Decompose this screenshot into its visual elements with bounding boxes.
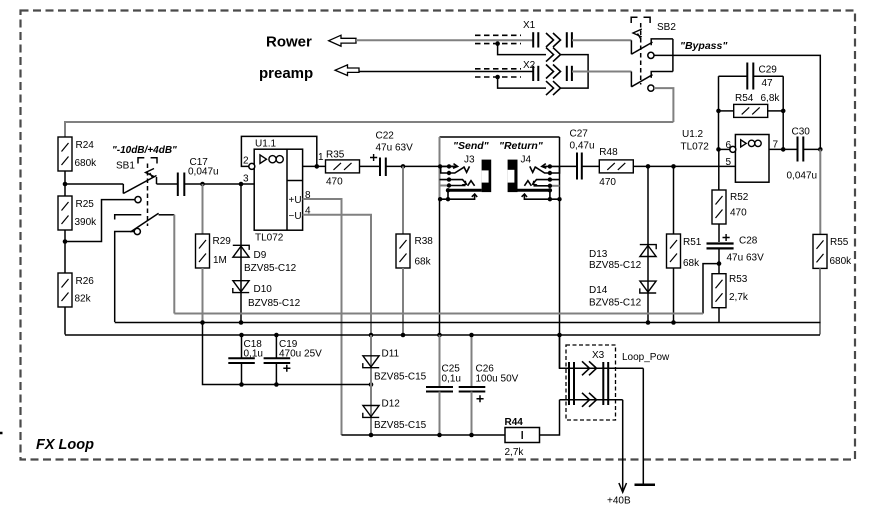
wire C28 to mid rail [703, 248, 719, 313]
wire R26 to bottom rail [64, 307, 66, 335]
jack J3 body bar [482, 160, 492, 193]
svg-text:D13: D13 [589, 249, 608, 260]
resistor R44 [505, 417, 540, 458]
J3 tip switch row [441, 166, 464, 173]
svg-text:470: 470 [599, 177, 616, 188]
svg-text:BZV85-C12: BZV85-C12 [589, 260, 642, 271]
svg-text:0,1u: 0,1u [244, 349, 263, 360]
svg-text:R26: R26 [76, 276, 95, 287]
X1 shield junction dot [495, 41, 500, 46]
svg-text:100u 50V: 100u 50V [476, 374, 519, 385]
resistor R48 [599, 147, 633, 188]
svg-text:R51: R51 [683, 237, 702, 248]
resistor R51 [667, 166, 702, 322]
X1 signal chevron [546, 33, 561, 47]
svg-text:47u 63V: 47u 63V [376, 143, 414, 154]
svg-text:R48: R48 [599, 147, 618, 158]
SB2 upper switch [631, 39, 673, 54]
svg-text:BZV85-C15: BZV85-C15 [374, 372, 427, 383]
capacitor C29 [719, 63, 784, 90]
SB1 bracket [138, 158, 144, 164]
svg-text:U1.2: U1.2 [682, 129, 704, 140]
resistor R25 [58, 196, 97, 230]
SB2 upper contact circle [648, 52, 654, 58]
rail 322 [115, 322, 821, 324]
op-amp U1.2 [735, 135, 769, 183]
J4 ring switch row [550, 185, 560, 187]
svg-text:SB1: SB1 [116, 161, 135, 172]
svg-text:2,7k: 2,7k [505, 447, 525, 458]
X2 shield junction dot [495, 75, 500, 80]
svg-text:R29: R29 [213, 236, 232, 247]
mid supply rail grey 313 [174, 313, 703, 315]
capacitor C18 [228, 335, 263, 385]
capacitor C25 [426, 335, 461, 435]
svg-text:+40B: +40B [607, 496, 631, 507]
wire to +40B [622, 400, 624, 491]
pin 2 inversion circle [249, 163, 255, 169]
capacitor C17 [178, 173, 185, 197]
svg-text:"Bypass": "Bypass" [680, 40, 728, 52]
svg-text:470: 470 [326, 177, 343, 188]
node R38 bottom on 335 rail [401, 333, 406, 338]
wire X1 to SB2 [572, 39, 631, 41]
X2 shield drop wire [498, 77, 546, 88]
svg-text:TL072: TL072 [255, 233, 284, 244]
node R51 bottom [671, 320, 676, 325]
pin 6 inversion circle [730, 146, 736, 152]
J3 ring switch row [440, 185, 450, 187]
wire to ground [642, 368, 644, 484]
svg-text:47: 47 [762, 78, 774, 89]
svg-text:0,047u: 0,047u [188, 167, 219, 178]
wire SB1 lower contact to 322 rail [115, 232, 135, 323]
node R25/R26 [63, 239, 68, 244]
svg-text:470u 25V: 470u 25V [279, 349, 322, 360]
ground symbol [635, 484, 656, 487]
svg-text:C30: C30 [792, 127, 811, 138]
svg-text:Rower: Rower [266, 34, 312, 51]
capacitor C27 [577, 153, 582, 180]
wire C22 to J3 [386, 165, 457, 167]
node output/feedback [315, 164, 320, 169]
svg-text:"Send": "Send" [453, 140, 490, 152]
node D11/D12 mid [369, 382, 374, 387]
svg-text:D9: D9 [254, 250, 267, 261]
node output [781, 147, 786, 152]
jack enclosure box [440, 137, 560, 368]
X1 connector bars [533, 32, 572, 47]
svg-text:470: 470 [730, 208, 747, 219]
pin 1 output wire [303, 165, 326, 167]
node D13 top [646, 164, 651, 169]
node X3 upper on 335 [557, 333, 562, 338]
C29/R54 left branch [718, 76, 720, 149]
node R24/R25 [63, 182, 68, 187]
SB2 lower contact circle [648, 85, 654, 91]
node C17/R29 [200, 182, 205, 187]
J4 tip contact row [530, 164, 560, 173]
svg-text:390k: 390k [75, 217, 98, 228]
node C30/bypass/R55 [818, 147, 823, 152]
pin 8 wire to +supply [303, 199, 342, 435]
X2 connector bars [533, 66, 572, 81]
top feedback bus [65, 122, 673, 137]
op-amp U1.1 [254, 149, 302, 230]
X3 lower pin wire [560, 399, 623, 401]
J4 sleeve row [522, 194, 560, 199]
svg-text:C29: C29 [759, 65, 778, 76]
wire C27 to R48 [582, 165, 600, 167]
svg-text:D10: D10 [254, 284, 273, 295]
svg-text:6,8k: 6,8k [761, 93, 781, 104]
J3 tip contact row [440, 164, 470, 173]
svg-text:J4: J4 [521, 155, 532, 166]
svg-text:preamp: preamp [259, 65, 313, 82]
svg-text:680k: 680k [75, 158, 98, 169]
X1 shield chevron [546, 48, 561, 62]
svg-text:R53: R53 [729, 274, 748, 285]
SB1 upper switch [123, 176, 156, 194]
resistor R54 [719, 93, 784, 117]
resistor R35 [326, 150, 360, 188]
svg-text:TL072: TL072 [681, 142, 710, 153]
wire R24-R25 [64, 171, 66, 196]
SB2 actuator arrow [633, 29, 642, 39]
resistor R24 [58, 137, 97, 171]
pin 4 wire to -supply [303, 215, 371, 335]
wire SB1 upper contact to node R25/R26 [67, 200, 135, 242]
zener D10 [233, 281, 301, 309]
svg-text:47u 63V: 47u 63V [727, 253, 765, 264]
X3 lower chevron [582, 393, 597, 407]
SB2 lower switch [631, 39, 673, 87]
svg-text:SB2: SB2 [657, 22, 676, 33]
svg-text:X3: X3 [592, 350, 605, 361]
svg-text:R54: R54 [735, 93, 754, 104]
zener D14 [589, 281, 656, 308]
svg-text:R25: R25 [76, 199, 95, 210]
shield loop wire [561, 55, 588, 89]
wire R35 to C22 [360, 165, 381, 167]
wire R48 to U1.2 pin5 [633, 165, 735, 167]
rail 435 positive supply [342, 434, 506, 436]
pin6 wire [719, 148, 730, 150]
connector X3 dashed box [566, 345, 616, 420]
svg-text:BZV85-C12: BZV85-C12 [589, 298, 642, 309]
svg-text:U1.1: U1.1 [255, 139, 277, 150]
X3 bars [569, 362, 608, 405]
node D12 bottom [369, 433, 374, 438]
svg-text:5: 5 [726, 157, 732, 168]
+40B arrowhead [619, 483, 627, 492]
C29/R54 right branch [782, 76, 784, 149]
wire SB1 to C17 [157, 183, 178, 185]
J4 tip switch row [536, 166, 560, 173]
node pin4 on 335 [369, 333, 374, 338]
SB2 dashed link [640, 23, 642, 85]
svg-text:−U: −U [289, 211, 302, 222]
U1.1 amp symbol [260, 155, 283, 164]
node R29 bottom on 322 rail [200, 320, 205, 325]
SB1 upper contact circle [135, 197, 141, 203]
capacitor C28 [707, 234, 765, 264]
svg-text:D12: D12 [382, 399, 401, 410]
J3 ring contact row [440, 180, 475, 186]
svg-text:1M: 1M [213, 255, 227, 266]
node C22/R38 [401, 164, 406, 169]
svg-text:BZV85-C15: BZV85-C15 [374, 420, 427, 431]
wire X2 to SB2 [572, 71, 631, 73]
svg-text:2: 2 [243, 156, 249, 167]
node D10 bottom on 322 rail [239, 320, 244, 325]
wire SB2 lower to top bus [654, 88, 673, 122]
resistor R53 [712, 264, 749, 323]
J3 sleeve thick lead [448, 189, 482, 192]
node D14 bottom [646, 320, 651, 325]
svg-text:Loop_Pow: Loop_Pow [622, 352, 670, 363]
svg-text:C22: C22 [376, 131, 395, 142]
wire R25-R26 [64, 230, 66, 273]
wire Rower arrow to X1 [356, 39, 533, 41]
pin 7 output wire [769, 148, 798, 150]
arrow to preamp [335, 65, 359, 76]
wire R44 to X3 lower [540, 400, 560, 435]
svg-text:D14: D14 [589, 285, 608, 296]
capacitor C26 [459, 335, 519, 435]
resistor R29 [196, 184, 232, 323]
svg-text:2,7k: 2,7k [729, 292, 749, 303]
svg-text:0,047u: 0,047u [787, 171, 818, 182]
rail 384 C18/C19 bottom [203, 323, 372, 385]
zener D12 [363, 399, 427, 432]
svg-text:68k: 68k [683, 258, 700, 269]
zener D9 [233, 184, 297, 323]
rail 335 [65, 334, 820, 336]
svg-text:+U: +U [289, 195, 302, 206]
svg-text:BZV85-C12: BZV85-C12 [244, 263, 297, 274]
capacitor C22 [380, 158, 386, 177]
svg-text:C27: C27 [570, 129, 589, 140]
arrow to Rower [329, 35, 356, 46]
svg-text:680k: 680k [830, 256, 853, 267]
svg-text:1: 1 [318, 152, 324, 163]
node jack edge on 335 [437, 333, 442, 338]
resistor R52 [712, 149, 749, 242]
resistor R55 [813, 149, 852, 334]
svg-text:FX Loop: FX Loop [36, 437, 94, 453]
node pin6 [716, 147, 721, 152]
svg-text:R55: R55 [830, 237, 849, 248]
svg-text:R52: R52 [730, 192, 749, 203]
J3 sleeve row [440, 194, 478, 199]
svg-text:0,47u: 0,47u [570, 141, 595, 152]
svg-text:68k: 68k [415, 257, 432, 268]
svg-text:X1: X1 [523, 20, 536, 31]
node C28 bottom [717, 261, 722, 266]
wire SB1 lower right to 313 rail [173, 215, 175, 314]
resistor R26 [58, 273, 94, 307]
U1.2 amp symbol [741, 140, 762, 147]
wire C17 to pin3 [184, 183, 254, 185]
X1 shield drop wire [498, 44, 546, 55]
node R51 top [671, 164, 676, 169]
resistor R38 [396, 166, 433, 335]
zener D11 [363, 335, 427, 435]
node R54 left [716, 109, 721, 114]
svg-text:"-10dB/+4dB": "-10dB/+4dB" [112, 145, 177, 156]
wire node to SB1 [65, 183, 123, 185]
wire preamp arrow to X2 [359, 71, 533, 73]
capacitor C19 [264, 335, 323, 385]
svg-text:C28: C28 [739, 236, 758, 247]
svg-text:J3: J3 [464, 155, 475, 166]
SB1 actuator arrow [146, 169, 155, 179]
X2 signal chevron [546, 65, 561, 79]
U1.1 feedback loop [241, 136, 316, 166]
svg-text:BZV85-C12: BZV85-C12 [248, 298, 301, 309]
J4 sleeve thick lead [518, 189, 550, 192]
X1 shield dashes [475, 35, 521, 43]
wire bypass to C30 node [654, 55, 820, 149]
svg-text:R35: R35 [326, 150, 345, 161]
SB1 lower switch [115, 213, 175, 232]
node R54 right [781, 109, 786, 114]
X2 shield chevron [546, 81, 561, 95]
svg-text:R24: R24 [76, 140, 95, 151]
node pin3/D9 [239, 182, 244, 187]
svg-text:82k: 82k [75, 294, 92, 305]
svg-text:R38: R38 [415, 236, 434, 247]
J4 ring contact row [524, 180, 559, 186]
SB2 bracket [631, 17, 637, 23]
svg-text:3: 3 [243, 174, 249, 185]
stray tick left edge [0, 432, 3, 435]
svg-text:"Return": "Return" [499, 140, 544, 152]
X2 shield dashes [475, 69, 521, 77]
X3 upper chevron [582, 361, 597, 375]
svg-text:0,1u: 0,1u [442, 374, 461, 385]
svg-text:R44: R44 [505, 417, 524, 428]
svg-text:D11: D11 [382, 349, 400, 360]
wire J4 to C27 [560, 165, 578, 167]
jack J4 body bar [508, 160, 518, 193]
zener D13 [589, 166, 656, 322]
X3 upper pin wire [560, 335, 644, 368]
SB1 dashed link [147, 164, 149, 227]
SB1 lower contact circle [134, 228, 140, 234]
capacitor C30 [787, 127, 821, 182]
